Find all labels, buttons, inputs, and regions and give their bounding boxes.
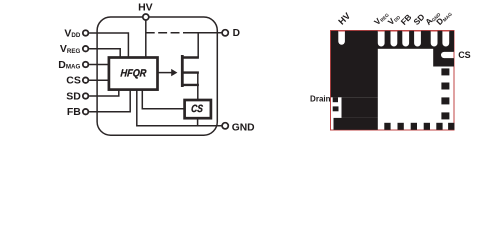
svg-text:CS: CS bbox=[458, 50, 471, 60]
right pin 3 bbox=[441, 97, 449, 104]
svg-text:HV: HV bbox=[138, 1, 153, 13]
svg-text:HV: HV bbox=[336, 11, 352, 27]
wire HV vertical bbox=[145, 21, 147, 60]
svg-text:VREG: VREG bbox=[60, 43, 81, 55]
block HFQR U1 bbox=[109, 58, 158, 90]
terminal SD bbox=[83, 93, 89, 99]
terminal GND bbox=[222, 123, 228, 129]
wire CS block input bbox=[142, 90, 184, 109]
drain pad body bbox=[342, 97, 378, 118]
transistor Q1 body stub bbox=[183, 71, 199, 73]
transistor Q1 channel bar bbox=[181, 55, 184, 87]
svg-text:Drain: Drain bbox=[310, 94, 331, 103]
right pin 4 bbox=[441, 112, 449, 119]
slot VDD bbox=[391, 31, 398, 47]
wire solid to D terminal bbox=[190, 32, 222, 34]
terminal DMAG bbox=[83, 62, 89, 68]
wire DMAG bbox=[89, 64, 109, 66]
package outline bbox=[331, 31, 455, 131]
drain pad foot bbox=[334, 118, 378, 130]
IC package outline bbox=[97, 17, 217, 135]
svg-text:HFQR: HFQR bbox=[120, 68, 148, 80]
wire drain vertical bbox=[197, 33, 199, 58]
svg-text:GND: GND bbox=[232, 123, 255, 134]
right pin 1 bbox=[441, 68, 449, 75]
transistor Q1 source stub bbox=[183, 84, 199, 86]
slot SD bbox=[414, 31, 421, 47]
terminal VREG bbox=[83, 46, 89, 52]
left pin B bbox=[333, 106, 339, 111]
slot AGND bbox=[431, 31, 438, 47]
wire CS block to GND rail bbox=[197, 118, 199, 126]
slot FB bbox=[402, 31, 409, 47]
bottom pin 1 bbox=[384, 123, 390, 130]
wire dashed HV to D bbox=[146, 32, 190, 34]
svg-text:SD: SD bbox=[66, 90, 81, 102]
bottom pin 6 bbox=[448, 123, 454, 130]
svg-text:CS: CS bbox=[191, 103, 204, 115]
pin CS block bbox=[433, 48, 454, 66]
terminal VDD bbox=[83, 30, 89, 36]
svg-text:DMAG: DMAG bbox=[58, 59, 80, 71]
slot HV bbox=[338, 31, 345, 45]
svg-text:CS: CS bbox=[66, 75, 81, 87]
outline red overlay across slots bbox=[338, 31, 454, 58]
wire VREG bbox=[89, 49, 120, 59]
terminal D bbox=[222, 30, 228, 36]
bottom pin 2 bbox=[398, 123, 404, 130]
svg-text:DMAG: DMAG bbox=[434, 8, 453, 27]
wire SD bbox=[89, 90, 119, 97]
wire VDD bbox=[89, 33, 128, 59]
bottom pin 4 bbox=[424, 123, 430, 130]
drain pad bbox=[331, 31, 378, 98]
wire FB bbox=[89, 90, 130, 112]
wire source vertical bbox=[197, 73, 199, 100]
slot VREG bbox=[378, 31, 385, 47]
bottom pin 5 bbox=[436, 123, 442, 130]
terminal FB bbox=[83, 109, 89, 115]
wire gate bbox=[158, 72, 173, 74]
svg-text:VDD: VDD bbox=[64, 27, 80, 39]
bottom pin 3 bbox=[411, 123, 417, 130]
terminal HV bbox=[143, 14, 149, 20]
left pin A bbox=[333, 97, 338, 102]
svg-text:D: D bbox=[233, 28, 240, 39]
slot DMAG bbox=[442, 31, 449, 47]
svg-text:FB: FB bbox=[67, 106, 81, 118]
wire drain stub bbox=[183, 56, 199, 58]
transistor Q1 gate arrow bbox=[171, 69, 177, 76]
top strip bbox=[378, 31, 455, 49]
wire GND rail bbox=[137, 90, 222, 126]
right pin 2 bbox=[441, 83, 449, 90]
terminal CS bbox=[83, 77, 89, 83]
slot CS bbox=[441, 52, 454, 58]
block CS U2 bbox=[185, 100, 211, 118]
wire CS pin bbox=[89, 79, 109, 81]
